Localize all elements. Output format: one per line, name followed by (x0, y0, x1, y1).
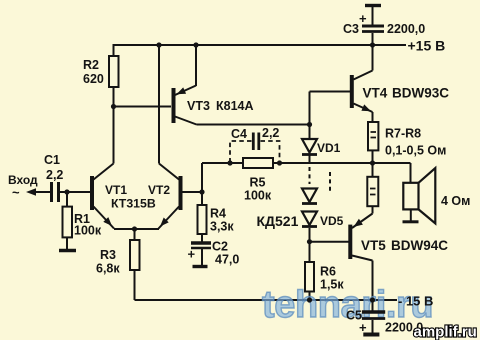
wire VT2 collector to rail (158, 44, 160, 164)
svg-text:BDW93C: BDW93C (392, 86, 449, 101)
wire VT4 emitter to R7 (372, 112, 374, 122)
resistor R2 (109, 56, 119, 87)
wire R2 top lead (113, 44, 115, 56)
capacitor C5 bottom terminal (363, 333, 379, 337)
transistor VT4 emitter diagonal (354, 104, 373, 113)
svg-text:2,2: 2,2 (46, 168, 63, 182)
svg-text:- 15 В: - 15 В (398, 294, 433, 309)
resistor R1 (63, 207, 73, 238)
svg-text:C2: C2 (212, 240, 228, 254)
wire C1 to VT1 base (60, 191, 90, 193)
transistor VT3 collector diagonal (175, 117, 197, 125)
diode VD (middle) (302, 189, 317, 203)
svg-text:47,0: 47,0 (215, 253, 239, 267)
svg-text:VT1: VT1 (105, 183, 127, 197)
transistor VT5 base bar (348, 225, 352, 259)
transistor VT2 collector diagonal (159, 164, 179, 180)
wire +15V top rail (114, 44, 407, 46)
capacitor C1 (50, 182, 53, 202)
svg-text:R2: R2 (83, 58, 99, 72)
svg-text:1,5к: 1,5к (320, 278, 344, 292)
svg-text:R6: R6 (320, 265, 336, 279)
transistor VT3 base bar (172, 88, 176, 123)
transistor VT4 base bar (350, 75, 354, 108)
wire VT2 base to R4 node (182, 191, 202, 193)
svg-text:VT4: VT4 (363, 86, 388, 101)
wire R8 to VT5 emitter (372, 206, 374, 213)
resistor R8 (367, 177, 378, 206)
transistor VT5 emitter diagonal (352, 214, 373, 229)
svg-text:C3: C3 (343, 22, 359, 36)
svg-text:VT3: VT3 (187, 99, 210, 113)
wire R5 left (202, 162, 243, 164)
svg-text:6,8к: 6,8к (96, 262, 120, 276)
svg-text:КД521: КД521 (257, 213, 299, 229)
wire R3 column (134, 229, 136, 240)
wire R4 leads (201, 192, 203, 205)
svg-text:R5: R5 (250, 176, 266, 190)
diode VD5 (302, 212, 317, 226)
svg-text:C1: C1 (44, 153, 60, 167)
diode VD1 (302, 139, 317, 153)
wire input line to C1 (33, 191, 50, 193)
capacitor C4 dashed leads (230, 141, 280, 161)
transistor VT2 base bar (179, 176, 183, 210)
resistor R5 (243, 158, 273, 168)
wire R4 node up to R5 wire (201, 163, 203, 192)
capacitor C4 (252, 133, 255, 151)
ground at R1 (59, 249, 76, 252)
svg-text:BDW94C: BDW94C (391, 238, 448, 253)
svg-text:+: + (188, 247, 196, 262)
resistor R7 (368, 122, 378, 150)
wire VD1 to output wire (309, 156, 311, 164)
wire C2 bottom lead (201, 249, 203, 265)
transistor VT4 collector diagonal (354, 71, 373, 80)
transistor VT1 emitter arrow (103, 217, 112, 226)
wire speaker drop (410, 163, 412, 183)
svg-text:2200,0: 2200,0 (387, 22, 425, 36)
svg-text:VT2: VT2 (148, 183, 170, 197)
wire common emitters VT1 VT2 (114, 228, 159, 230)
wire VT4 base (310, 91, 351, 93)
wire C3 to rail (372, 7, 374, 25)
transistor VT1 emitter diagonal (94, 207, 115, 229)
svg-text:К814А: К814А (216, 99, 254, 113)
wire C5 leads (372, 300, 374, 311)
svg-text:VT5: VT5 (361, 238, 386, 253)
svg-text:2,2: 2,2 (262, 126, 279, 140)
svg-text:VD1: VD1 (317, 141, 341, 155)
svg-text:R3: R3 (100, 248, 116, 262)
wire R7 to R8 output column (372, 150, 374, 176)
wire R6 to negative rail (309, 292, 311, 301)
transistor VT1 collector diagonal (94, 164, 114, 180)
wire R1 leads (66, 192, 68, 207)
svg-text:+15 В: +15 В (408, 38, 446, 54)
svg-text:R7-R8: R7-R8 (385, 127, 421, 141)
svg-text:100к: 100к (244, 189, 272, 203)
wire VD5 to R6 and VT5 base column (309, 228, 311, 262)
transistor VT2 emitter diagonal (159, 207, 180, 229)
wire negative rail (135, 299, 398, 301)
wire VT3 emitter to rail (195, 44, 197, 86)
capacitor C5 (362, 310, 385, 313)
capacitor C3 (365, 4, 381, 7)
transistor VT1 base bar (90, 176, 94, 210)
wire node A to VT3 base (114, 106, 172, 108)
svg-text:C4: C4 (231, 127, 247, 141)
svg-text:620: 620 (83, 72, 104, 86)
wire speaker ground lead (410, 209, 412, 220)
ground at speaker (403, 220, 419, 223)
svg-text:100к: 100к (74, 224, 102, 238)
svg-text:4 Ом: 4 Ом (441, 194, 470, 208)
svg-text:0,1-0,5 Ом: 0,1-0,5 Ом (385, 144, 446, 158)
input arrow (26, 188, 36, 196)
wire VT5 collector to negative rail (372, 261, 374, 301)
wire VT5 base (310, 241, 349, 243)
wire VT4 collector vertical (372, 44, 374, 71)
wire VT3 collector horizontal (197, 124, 310, 126)
speaker (403, 183, 418, 210)
transistor VT2 emitter arrow (160, 218, 169, 227)
svg-text:~: ~ (12, 185, 20, 200)
resistor R4 (198, 205, 207, 234)
transistor VT4 emitter arrow (361, 104, 371, 111)
wire R5 right / output feedback wire (273, 162, 411, 164)
capacitor C2 (191, 241, 211, 244)
wire R2 bottom to VT1 collector column (113, 87, 115, 164)
svg-text:VD5: VD5 (320, 214, 344, 228)
capacitor C2 ground bar (193, 265, 208, 268)
resistor R6 (305, 262, 314, 292)
resistor R3 (130, 240, 140, 270)
svg-text:3,3к: 3,3к (210, 220, 234, 234)
dashed omitted diodes VD2-VD4 (309, 167, 311, 184)
transistor VT5 emitter arrow (PNP) (354, 219, 363, 227)
dashed coupling line (329, 172, 331, 191)
transistor VT3 emitter diagonal (175, 86, 196, 96)
svg-text:КТ315В: КТ315В (111, 197, 156, 211)
svg-text:amplif.ru: amplif.ru (414, 324, 477, 340)
svg-text:+: + (359, 11, 367, 26)
wire VD column top (309, 92, 311, 140)
svg-text:R4: R4 (210, 207, 226, 221)
transistor VT5 collector diagonal (352, 256, 373, 261)
transistor VT3 emitter arrow (PNP) (177, 87, 187, 94)
svg-text:+: + (359, 320, 367, 335)
